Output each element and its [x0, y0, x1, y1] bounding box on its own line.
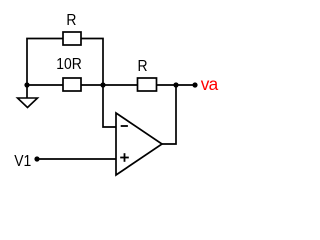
svg-text:10R: 10R — [56, 55, 82, 73]
svg-text:R: R — [66, 11, 76, 29]
svg-text:V1: V1 — [14, 152, 31, 170]
svg-text:R: R — [137, 57, 147, 75]
svg-text:va: va — [201, 74, 219, 94]
